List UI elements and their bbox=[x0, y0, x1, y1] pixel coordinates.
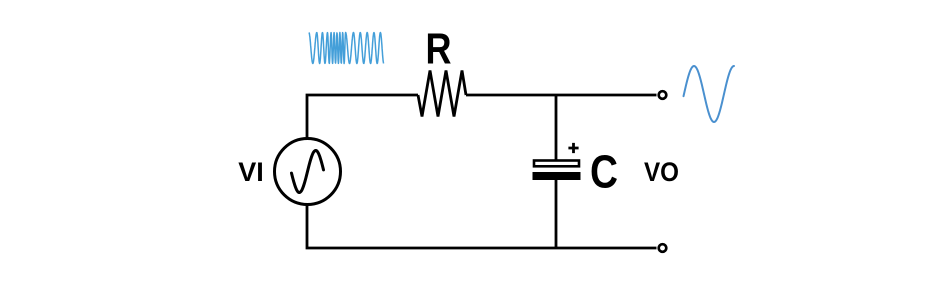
capacitor C bottom plate bbox=[533, 172, 581, 180]
wire: bottom rail bbox=[307, 204, 657, 248]
svg-text:VO: VO bbox=[644, 157, 679, 187]
resistor R bbox=[418, 71, 466, 117]
wire: capacitor branch top bbox=[555, 95, 558, 160]
input signal waveform (blue chirp) bbox=[309, 33, 384, 64]
source VI sine symbol bbox=[292, 151, 324, 193]
svg-text:VI: VI bbox=[238, 157, 264, 187]
wire: capacitor branch bottom bbox=[555, 180, 558, 248]
output signal waveform (blue sine) bbox=[684, 66, 735, 122]
terminal top bbox=[659, 91, 667, 99]
plus sign bbox=[568, 143, 578, 153]
capacitor C top plate bbox=[534, 161, 579, 167]
svg-text:C: C bbox=[590, 145, 618, 197]
terminal bottom bbox=[659, 244, 667, 252]
wire: resistor to output terminal (top) bbox=[466, 94, 657, 97]
wire: source top to resistor bbox=[307, 95, 418, 139]
svg-text:R: R bbox=[426, 24, 452, 73]
source VI circle bbox=[275, 139, 341, 205]
